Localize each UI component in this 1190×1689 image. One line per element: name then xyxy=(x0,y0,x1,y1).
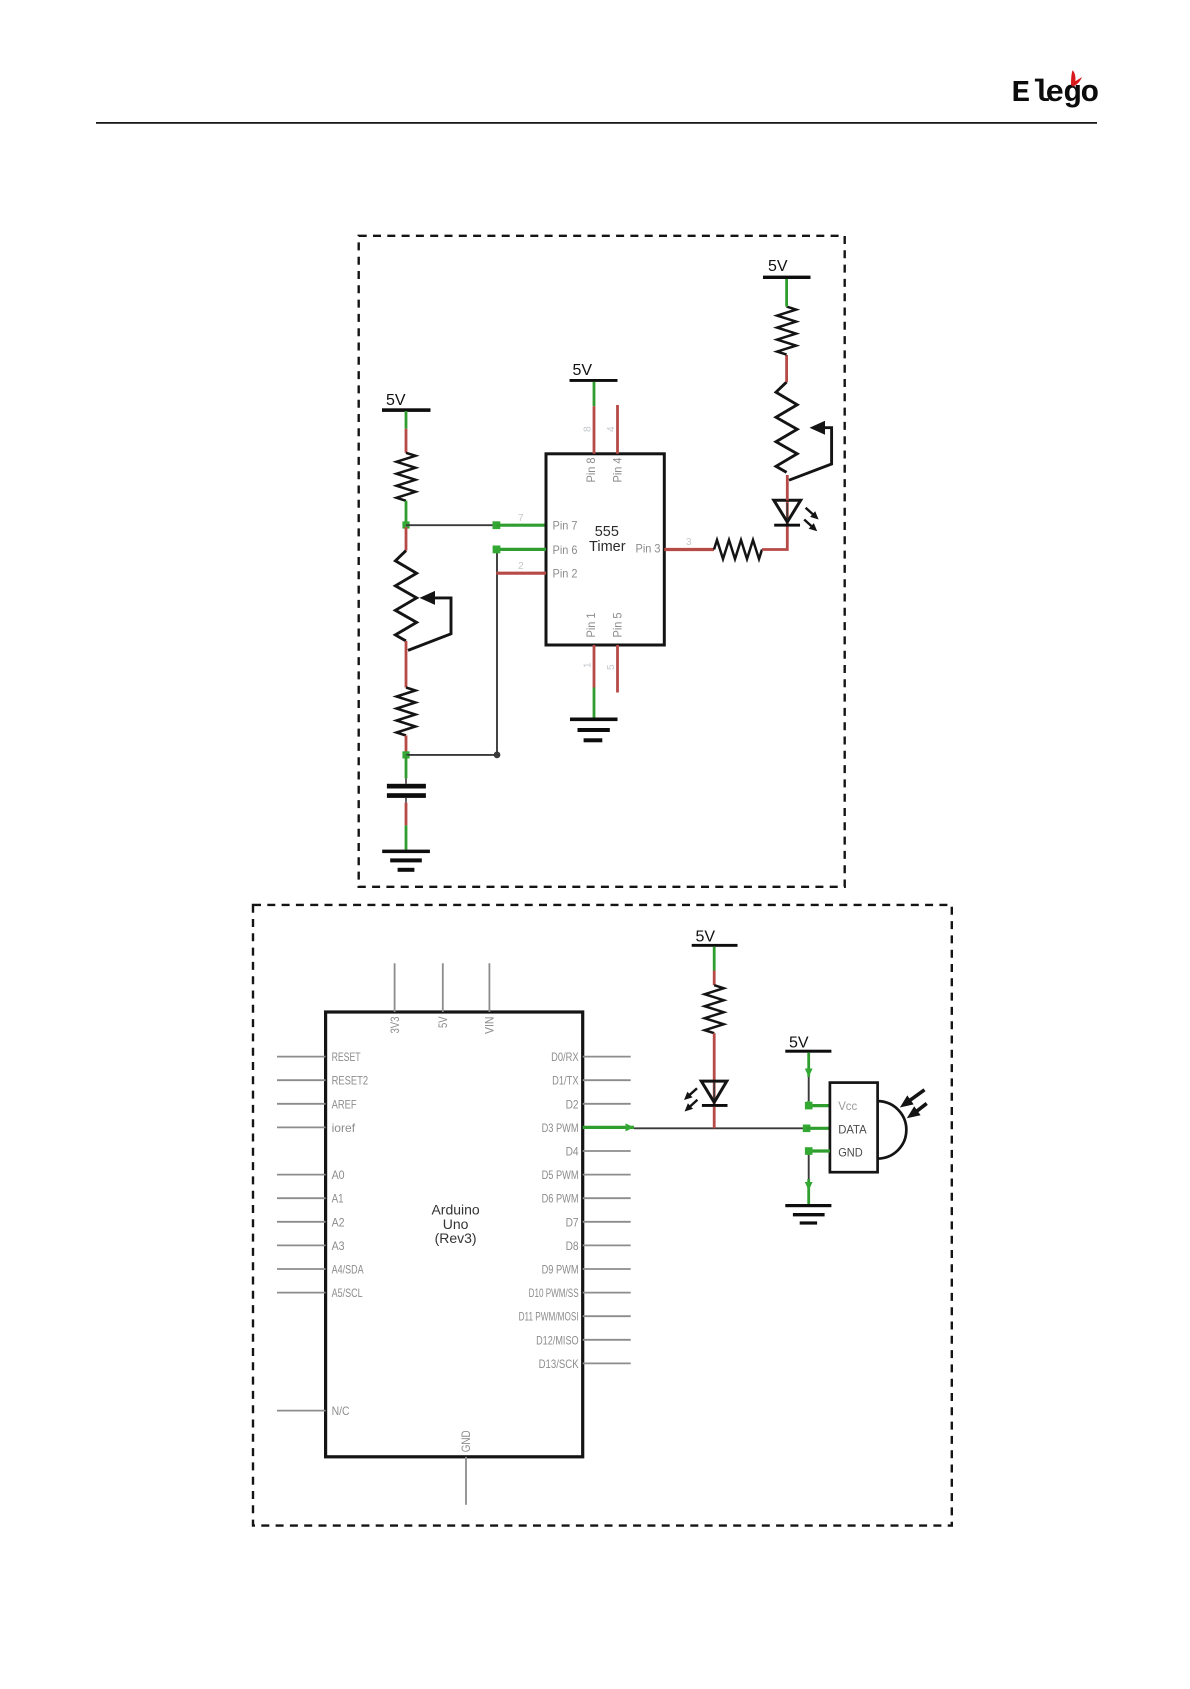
svg-text:N/C: N/C xyxy=(332,1404,350,1418)
wire pin 2 stub xyxy=(496,572,546,575)
wire node A to RV1 xyxy=(405,527,408,551)
pin D1/TX wire xyxy=(583,1079,631,1081)
wire C1 to ground xyxy=(405,798,407,803)
svg-text:1: 1 xyxy=(583,662,594,668)
svg-text:5V: 5V xyxy=(789,1035,809,1052)
svg-text:D1/TX: D1/TX xyxy=(552,1074,579,1088)
pin RESET wire xyxy=(277,1056,326,1058)
svg-text:D11 PWM/MOSI: D11 PWM/MOSI xyxy=(519,1310,579,1324)
svg-text:E: E xyxy=(1012,76,1031,111)
svg-text:AREF: AREF xyxy=(332,1097,357,1111)
svg-text:Pin 3: Pin 3 xyxy=(636,542,661,556)
pin RESET2 wire xyxy=(277,1079,326,1081)
svg-text:Pin 6: Pin 6 xyxy=(553,543,578,557)
svg-text:ioref: ioref xyxy=(332,1121,356,1135)
pin A1 wire xyxy=(277,1197,326,1199)
555 timer box U1 xyxy=(546,454,664,645)
pin A0 wire xyxy=(277,1174,326,1176)
svg-text:3V3: 3V3 xyxy=(388,1016,402,1033)
wire GND pin to ground xyxy=(809,1151,830,1155)
wire pin7 stub (green) xyxy=(496,524,546,527)
resistor R2 xyxy=(397,688,416,736)
wire R3 to LED corner xyxy=(762,526,787,550)
svg-text:RESET2: RESET2 xyxy=(332,1074,369,1088)
wire pin 1 xyxy=(593,645,596,688)
wire pin 6 stub xyxy=(496,548,546,551)
wire pin 3 stub xyxy=(664,548,714,551)
pin D13/SCK wire xyxy=(583,1362,631,1364)
svg-text:D10 PWM/SS: D10 PWM/SS xyxy=(529,1286,579,1300)
power 5V supply (left) xyxy=(382,392,431,412)
svg-text:D13/SCK: D13/SCK xyxy=(539,1357,579,1371)
wire RV2 to R4 xyxy=(785,355,788,382)
svg-text:Pin 4: Pin 4 xyxy=(611,457,625,482)
pin D8 wire xyxy=(583,1244,631,1246)
wire 5V to R1 xyxy=(405,411,408,429)
power 5V supply (right) xyxy=(763,258,811,279)
svg-text:D4: D4 xyxy=(566,1145,579,1159)
pin D12/MISO wire xyxy=(583,1339,631,1341)
svg-text:Pin 8: Pin 8 xyxy=(584,457,598,482)
potentiometer RV2 xyxy=(776,382,832,480)
pin ioref wire xyxy=(277,1126,326,1128)
svg-text:5V: 5V xyxy=(768,258,788,275)
wire D3 PWM to DATA xyxy=(583,1126,634,1129)
dashed panel border xyxy=(253,905,952,1526)
svg-text:D8: D8 xyxy=(566,1239,579,1253)
wire 5V to Vcc xyxy=(807,1053,810,1077)
pin D10 PWM/SS wire xyxy=(583,1292,631,1294)
wire pin 8 xyxy=(593,382,596,406)
capacitor C1 xyxy=(387,784,426,798)
pin D4 wire xyxy=(583,1150,631,1152)
ground GND2 xyxy=(570,718,618,743)
wire RV1 to R2 xyxy=(405,641,408,688)
power 5V supply (IR LED branch) xyxy=(692,929,738,947)
wire LED2 to data net xyxy=(713,1107,716,1128)
svg-text:2: 2 xyxy=(518,561,524,572)
svg-text:7: 7 xyxy=(518,513,524,524)
resistor R1 xyxy=(397,453,416,501)
header rule xyxy=(96,122,1097,124)
wire node B to C1 xyxy=(405,755,408,778)
svg-text:e: e xyxy=(1046,76,1065,111)
svg-text:5V: 5V xyxy=(386,392,406,409)
Elego logo xyxy=(1012,70,1100,111)
svg-text:GND: GND xyxy=(838,1145,863,1159)
svg-text:D0/RX: D0/RX xyxy=(551,1050,579,1064)
pin D2 wire xyxy=(583,1103,631,1105)
power 5V supply (receiver) xyxy=(785,1035,831,1053)
svg-text:A3: A3 xyxy=(332,1239,345,1253)
svg-text:A0: A0 xyxy=(332,1168,345,1182)
pin D0/RX wire xyxy=(583,1056,631,1058)
svg-text:D5 PWM: D5 PWM xyxy=(542,1168,579,1182)
wire R2 to node B xyxy=(405,736,408,753)
IR light arrows xyxy=(900,1090,927,1119)
svg-text:4: 4 xyxy=(606,426,617,432)
LED D1 xyxy=(774,500,819,531)
svg-text:D3 PWM: D3 PWM xyxy=(542,1121,579,1135)
resistor R3 xyxy=(714,540,762,559)
svg-text:A5/SCL: A5/SCL xyxy=(332,1286,363,1300)
wire node A to Pin 7 xyxy=(406,524,496,526)
svg-text:3: 3 xyxy=(686,537,692,548)
Arduino Uno box U2 xyxy=(326,1012,583,1457)
wire node B right xyxy=(406,754,497,756)
U2 right pin labels xyxy=(519,1050,579,1371)
IR receiver U3 xyxy=(830,1083,906,1173)
resistor R5 xyxy=(705,985,724,1033)
svg-text:5V: 5V xyxy=(573,362,593,379)
pin VIN wire xyxy=(488,963,490,1012)
pin A3 wire xyxy=(277,1244,326,1246)
svg-text:GND: GND xyxy=(459,1430,473,1452)
U2 left pin wires xyxy=(277,1057,326,1411)
svg-text:Pin 1: Pin 1 xyxy=(584,612,598,637)
U2 right pin wires xyxy=(583,1057,631,1364)
wire R4 to 5V xyxy=(785,278,788,307)
svg-text:DATA: DATA xyxy=(838,1123,867,1137)
svg-text:D2: D2 xyxy=(566,1097,579,1111)
svg-text:D9 PWM: D9 PWM xyxy=(542,1263,579,1277)
svg-text:555: 555 xyxy=(595,524,619,540)
svg-text:RESET: RESET xyxy=(332,1050,361,1064)
svg-text:D7: D7 xyxy=(566,1215,579,1229)
pin D6 PWM wire xyxy=(583,1197,631,1199)
potentiometer RV1 xyxy=(395,551,451,651)
svg-text:(Rev3): (Rev3) xyxy=(435,1230,477,1246)
pin N/C wire xyxy=(277,1410,326,1412)
svg-text:A4/SDA: A4/SDA xyxy=(332,1263,364,1277)
svg-text:Pin 2: Pin 2 xyxy=(553,567,578,581)
ground GND3 xyxy=(785,1204,831,1225)
power 5V supply (middle) xyxy=(570,362,618,382)
pin 5V wire xyxy=(442,963,444,1012)
wire LED to RV2 xyxy=(786,475,789,500)
node A junction xyxy=(402,521,409,528)
svg-text:VIN: VIN xyxy=(483,1017,497,1035)
svg-text:Pin 7: Pin 7 xyxy=(553,519,578,533)
pin D11 PWM/MOSI wire xyxy=(583,1315,631,1317)
svg-text:D6 PWM: D6 PWM xyxy=(542,1192,579,1206)
svg-text:5: 5 xyxy=(606,664,617,670)
wire R5 to LED2 xyxy=(713,1033,716,1081)
svg-text:A2: A2 xyxy=(332,1215,345,1229)
svg-text:Pin 5: Pin 5 xyxy=(611,612,625,637)
junction dot xyxy=(494,752,501,759)
pin GND bottom wire xyxy=(465,1457,467,1505)
node B junction xyxy=(402,751,409,758)
pin D5 PWM wire xyxy=(583,1174,631,1176)
wire pin 5 xyxy=(616,645,619,693)
svg-text:8: 8 xyxy=(583,426,594,432)
pin D7 wire xyxy=(583,1221,631,1223)
pin A2 wire xyxy=(277,1221,326,1223)
wire pin 4 xyxy=(616,405,619,454)
svg-text:A1: A1 xyxy=(332,1192,344,1206)
pin A5/SCL wire xyxy=(277,1292,326,1294)
U2 left pin labels xyxy=(332,1050,369,1418)
pin D9 PWM wire xyxy=(583,1268,631,1270)
pin AREF wire xyxy=(277,1103,326,1105)
svg-text:Vcc: Vcc xyxy=(838,1099,857,1113)
svg-text:D12/MISO: D12/MISO xyxy=(536,1333,579,1347)
pin 3V3 wire xyxy=(394,963,396,1012)
resistor R4 xyxy=(777,307,796,355)
svg-text:o: o xyxy=(1081,76,1100,111)
wire 5V to R5 xyxy=(713,947,716,971)
wire R1 to node A xyxy=(405,501,408,527)
wire vertical to pins 6/2 xyxy=(496,549,498,755)
LED D2 (IR emitter) xyxy=(684,1081,728,1111)
svg-text:5V: 5V xyxy=(436,1017,450,1029)
dashed panel border xyxy=(359,236,845,887)
pin A4/SDA wire xyxy=(277,1268,326,1270)
ground GND1 xyxy=(382,850,430,872)
svg-text:Timer: Timer xyxy=(589,539,626,555)
svg-text:5V: 5V xyxy=(696,929,716,946)
